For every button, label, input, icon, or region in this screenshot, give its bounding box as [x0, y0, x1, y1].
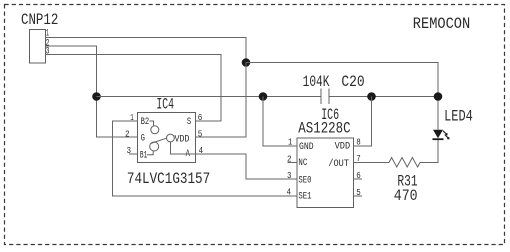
IC6 label	[321, 106, 339, 124]
IC4 switch pole circle VDD	[167, 134, 175, 142]
IC6 pin 7 number	[356, 154, 361, 164]
IC4 pin label B2	[141, 116, 150, 128]
IC4 switch wiper	[150, 138, 166, 143]
svg-text:S: S	[187, 116, 191, 128]
svg-text:G: G	[141, 133, 145, 145]
LED4 triangle	[433, 130, 443, 139]
IC6 pin 4 number	[287, 188, 292, 198]
wire R31 to LED cathode	[420, 139, 438, 163]
connector CNP12 body	[30, 30, 46, 64]
resistor R31 zigzag	[389, 158, 420, 168]
svg-text:IC4: IC4	[156, 96, 174, 114]
svg-text:470: 470	[394, 187, 418, 205]
sheet title REMOCON	[413, 15, 470, 33]
wire C20 right plate to LED column	[329, 96, 438, 98]
wire IC4 pin4 to IC6 SE0	[196, 154, 298, 179]
IC6 pin 8 number	[356, 138, 361, 148]
svg-text:3: 3	[287, 171, 292, 181]
svg-text:REMOCON: REMOCON	[413, 15, 470, 33]
svg-text:VDD: VDD	[175, 134, 190, 146]
IC6 pin 6 number	[356, 171, 361, 181]
connector CNP12 pin 3 number	[46, 46, 50, 58]
svg-text:GND: GND	[299, 141, 314, 153]
svg-text:/OUT: /OUT	[328, 158, 349, 170]
IC4 switch contact circle B2	[151, 126, 159, 134]
svg-text:VDD: VDD	[335, 141, 351, 153]
IC4 pin label G	[141, 133, 145, 145]
IC6 pin 6 stub	[354, 178, 363, 180]
svg-text:B2: B2	[141, 116, 150, 128]
IC6 body	[297, 138, 354, 208]
LED4 label	[444, 108, 473, 126]
wire VDD drop to IC6 pin8	[354, 97, 372, 147]
wire CNP12 pin3 to IC4 pin6	[46, 55, 222, 122]
IC4 label	[156, 96, 174, 114]
IC6 pin 5 number	[356, 188, 361, 198]
IC4 pin 2 number	[125, 129, 130, 139]
junction at IC6 VDD drop	[367, 92, 376, 101]
IC4 pin 1 number	[130, 113, 134, 123]
IC6 pin 5 stub	[354, 195, 363, 197]
resistor R31 reference	[397, 173, 417, 191]
IC4 switch contact circle B1	[150, 142, 159, 151]
svg-text:LED4: LED4	[444, 108, 473, 126]
connector CNP12 label	[21, 11, 58, 29]
wire IC6 pin7 /OUT to R31	[354, 162, 390, 164]
resistor R31 value 470	[394, 187, 418, 205]
IC4 internal link B2 to contact	[150, 121, 154, 126]
svg-text:8: 8	[356, 138, 361, 148]
svg-text:5: 5	[198, 130, 203, 140]
svg-text:B1: B1	[140, 150, 147, 162]
IC4 internal link B1 to contact	[147, 151, 153, 155]
capacitor C20 value 104K	[303, 73, 330, 91]
IC4 pin label A	[186, 148, 191, 160]
IC6 pin 2 stub	[288, 162, 298, 164]
svg-text:AS1228C: AS1228C	[298, 120, 350, 138]
IC4 pin label VDD	[175, 134, 190, 146]
IC6 pin label GND	[299, 141, 314, 153]
capacitor C20 left plate	[320, 89, 322, 105]
wire GND node to C20 left plate	[97, 96, 322, 98]
IC6 pin label /OUT	[328, 158, 349, 170]
LED4 cathode bar	[433, 138, 444, 140]
wire CNP12 pin1 to VDD node	[46, 38, 247, 63]
svg-text:4: 4	[287, 188, 292, 198]
IC4 pin 3 number	[127, 146, 132, 156]
wire IC4 pin1 to IC6 SE1	[113, 121, 298, 196]
svg-text:3: 3	[46, 46, 50, 58]
svg-text:104K: 104K	[303, 73, 330, 91]
svg-text:1: 1	[288, 138, 293, 148]
IC4 pin label S	[187, 116, 191, 128]
wire VDD node to LED anode column	[246, 63, 438, 130]
IC6 pin 3 number	[287, 171, 292, 181]
wire VDD node down to IC4 pin5	[196, 63, 247, 138]
svg-text:74LVC1G3157: 74LVC1G3157	[127, 170, 210, 188]
junction at LED column	[434, 92, 443, 101]
IC4 pin 6 number	[198, 113, 203, 123]
IC4 part number 74LVC1G3157	[127, 170, 210, 188]
IC4 body	[138, 113, 196, 163]
IC4 internal link pole to pin A	[170, 142, 195, 154]
svg-text:NC: NC	[298, 157, 307, 169]
junction at IC6 GND drop	[259, 92, 268, 101]
wire GND drop to IC6 pin1	[263, 97, 297, 147]
IC6 part number AS1228C	[298, 120, 350, 138]
connector CNP12 pin 1 number	[46, 28, 49, 40]
IC6 pin 2 number	[287, 154, 292, 164]
svg-text:6: 6	[198, 113, 203, 123]
IC4 pin 3 stub	[129, 153, 138, 155]
IC6 pin label SE1	[298, 191, 311, 203]
svg-text:SE1: SE1	[298, 191, 311, 203]
svg-text:2: 2	[125, 129, 130, 139]
svg-text:CNP12: CNP12	[21, 11, 58, 29]
svg-text:C20: C20	[341, 73, 364, 91]
capacitor C20 reference	[341, 73, 364, 91]
IC6 pin label SE0	[298, 175, 311, 187]
IC4 pin 4 number	[199, 146, 204, 156]
connector CNP12 pin 2 number	[46, 37, 50, 49]
IC6 pin label NC	[298, 157, 307, 169]
IC4 pin label B1	[140, 150, 147, 162]
junction GND node	[92, 92, 101, 101]
IC4 pin 5 number	[198, 130, 203, 140]
IC6 pin 1 number	[288, 138, 293, 148]
svg-text:SE0: SE0	[298, 175, 311, 187]
wire CNP12 pin2 to GND node and IC4 pin2	[46, 46, 138, 137]
capacitor C20 right plate	[328, 89, 330, 105]
junction VDD node	[242, 58, 251, 67]
LED4 light arrows	[443, 131, 450, 140]
IC6 pin label VDD	[335, 141, 351, 153]
